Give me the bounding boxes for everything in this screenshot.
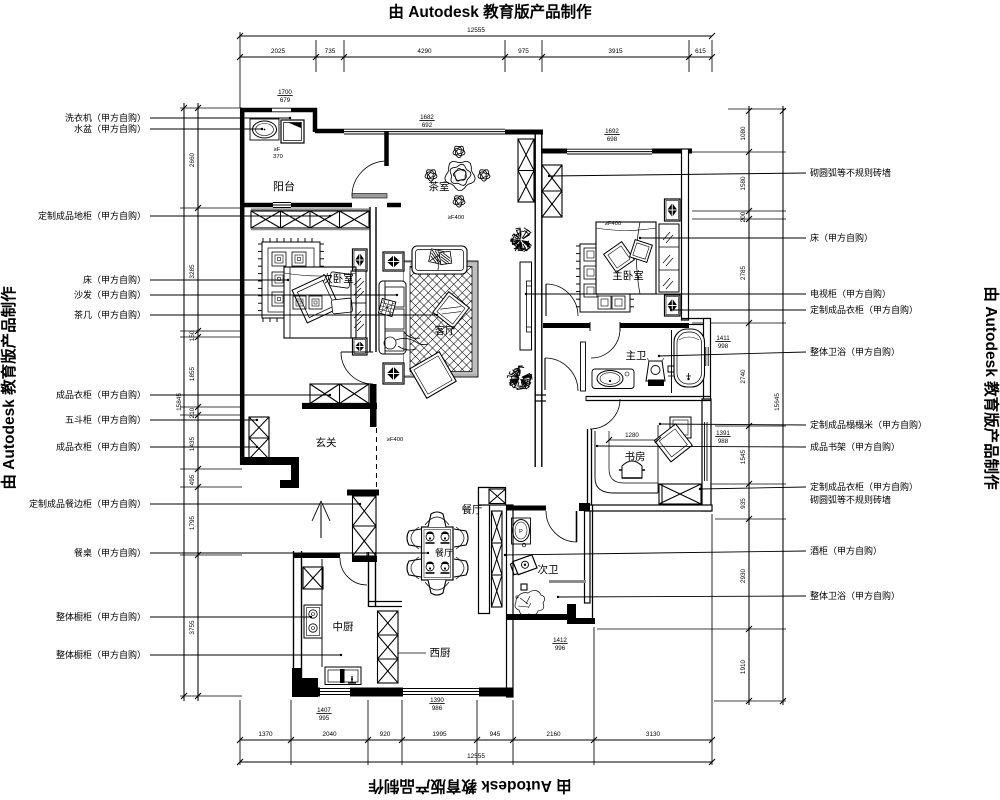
svg-text:≥F400: ≥F400 — [387, 437, 403, 443]
window: master bedroom top window 1692/698 — [567, 148, 652, 150]
wall: kitchen bottom-left notch — [292, 668, 318, 697]
wall: bedroom east wall (to hallway) — [369, 207, 371, 352]
svg-text:210: 210 — [189, 407, 196, 418]
svg-text:1411: 1411 — [716, 335, 730, 342]
wall: study west wall — [587, 429, 589, 505]
bathtub master bath — [674, 329, 705, 387]
wall: balcony top-left outer — [240, 108, 272, 113]
door: master bedroom entry door — [545, 284, 547, 316]
window: tea room top long window — [344, 128, 505, 130]
svg-text:150: 150 — [189, 330, 196, 341]
cabinet: five-drawer chest hatched — [249, 417, 269, 459]
entry direction arrow — [320, 505, 322, 538]
svg-text:茶室: 茶室 — [429, 180, 450, 193]
cabinet: master bedroom closet — [542, 165, 562, 217]
ottoman rotated square — [410, 352, 456, 398]
chair in study — [622, 461, 642, 478]
wall: second bath south step walls — [506, 604, 595, 624]
table: coffee table 茶几 — [433, 292, 469, 328]
wall: bedroom south wall / wardrobe zone — [302, 404, 377, 409]
rug inner field with diamond grid — [410, 267, 472, 372]
svg-text:1855: 1855 — [189, 366, 196, 381]
window: second bath small window lines — [550, 615, 562, 617]
wall: top edge right of opening — [291, 108, 317, 113]
cabinet: wine cabinet vertical hatched boxes — [492, 511, 503, 607]
sink: balcony wash basin oval — [250, 119, 279, 140]
decor: figure scribble in living room — [384, 332, 428, 350]
svg-text:1580: 1580 — [740, 176, 747, 191]
dining chairs left side — [407, 529, 421, 547]
wall: master bath north wall right piece — [620, 323, 689, 328]
bed headboard strip — [351, 271, 366, 338]
svg-text:砌圆弧等不规则砖墙: 砌圆弧等不规则砖墙 — [810, 494, 891, 505]
svg-text:1391: 1391 — [716, 430, 730, 437]
wall: study east wall — [702, 399, 711, 511]
wall: step out to bath east wall — [681, 318, 710, 320]
svg-text:床（甲方自购）: 床（甲方自购） — [83, 274, 146, 285]
cabinet: tea room closet strip — [518, 139, 534, 202]
svg-text:1407: 1407 — [317, 707, 331, 714]
wall: divider centre piece — [291, 203, 352, 208]
svg-text:2930: 2930 — [740, 568, 747, 583]
svg-text:成品衣柜（甲方自购）: 成品衣柜（甲方自购） — [56, 441, 146, 452]
svg-text:整体橱柜（甲方自购）: 整体橱柜（甲方自购） — [56, 649, 146, 660]
wall: pier below dining cabinet — [352, 556, 377, 562]
svg-text:998: 998 — [718, 343, 729, 350]
svg-text:≥F: ≥F — [274, 147, 281, 153]
svg-text:679: 679 — [280, 97, 291, 104]
wall: second bath east wall — [585, 511, 591, 603]
svg-text:定制成品餐边柜（甲方自购）: 定制成品餐边柜（甲方自购） — [29, 498, 146, 509]
wall: second bath north walls and door jamb — [506, 506, 546, 511]
window: study window — [704, 422, 706, 481]
rug motifs master — [584, 248, 597, 261]
svg-text:餐厅: 餐厅 — [462, 503, 483, 516]
toilet master bath — [646, 361, 665, 381]
svg-text:主卧室: 主卧室 — [612, 269, 644, 282]
wash basin second bath — [512, 518, 531, 544]
door: study door at top-left — [585, 396, 587, 401]
svg-text:定制成品地柜（甲方自购）: 定制成品地柜（甲方自购） — [38, 210, 146, 221]
svg-text:3915: 3915 — [608, 48, 623, 55]
svg-text:495: 495 — [189, 474, 196, 485]
wall: tea room stub below window — [384, 131, 389, 166]
svg-text:客厅: 客厅 — [435, 324, 456, 337]
svg-text:2785: 2785 — [740, 265, 747, 280]
window: top-left opening 1700/679 — [272, 107, 291, 109]
svg-text:电视柜（甲方自购）: 电视柜（甲方自购） — [810, 288, 891, 299]
nightstand star box top (second bedroom) — [353, 249, 368, 271]
svg-text:1995: 1995 — [432, 731, 447, 738]
svg-text:整体卫浴（甲方自购）: 整体卫浴（甲方自购） — [810, 590, 900, 601]
dining chairs top and bottom — [428, 512, 446, 527]
kitchen sink counter bottom — [325, 667, 361, 685]
wall: corridor wall x535 (tea room / dining east) — [534, 133, 536, 467]
wall: master bath south wall — [586, 396, 711, 398]
svg-text:1692: 1692 — [605, 128, 619, 135]
small drain square second bath — [521, 584, 527, 590]
svg-text:定制成品榻榻米（甲方自购）: 定制成品榻榻米（甲方自购） — [810, 419, 927, 430]
svg-text:2660: 2660 — [189, 152, 196, 167]
bottom dimension chain total 12555 — [240, 761, 712, 763]
washing machine box — [281, 120, 304, 143]
wall: divider right pier — [387, 203, 401, 208]
cabinet: wine cabinet horizontal hatched box — [489, 489, 506, 504]
svg-text:由 Autodesk 教育版产品制作: 由 Autodesk 教育版产品制作 — [388, 2, 592, 21]
toilet second bath rotated — [509, 554, 537, 576]
svg-text:12555: 12555 — [467, 753, 485, 760]
svg-text:2160: 2160 — [546, 731, 561, 738]
sofa: chaise on west side of living room — [379, 281, 406, 354]
svg-text:945: 945 — [490, 731, 501, 738]
wall: hall top wall (bedroom south) piece — [302, 403, 377, 405]
stove with two burners — [304, 605, 322, 638]
bed: second bedroom bed frame — [284, 267, 356, 338]
svg-text:935: 935 — [740, 498, 747, 509]
wall: left outer wall — [240, 108, 245, 465]
svg-text:1080: 1080 — [740, 126, 747, 141]
leader: 西厨 to cabinet — [398, 652, 426, 654]
svg-text:整体卫浴（甲方自购）: 整体卫浴（甲方自购） — [810, 346, 900, 357]
svg-text:≥F400: ≥F400 — [605, 221, 621, 227]
svg-text:1545: 1545 — [740, 449, 747, 464]
dim 1280 inside study — [609, 439, 658, 441]
svg-text:餐桌（甲方自购）: 餐桌（甲方自购） — [74, 547, 146, 558]
wall: master bedroom south wall — [543, 323, 590, 328]
rug: second bedroom greek-key rug — [262, 242, 320, 318]
svg-text:由 Autodesk 教育版产品制作: 由 Autodesk 教育版产品制作 — [368, 777, 572, 796]
plants near corridor — [511, 228, 531, 252]
svg-text:由 Autodesk 教育版产品制作: 由 Autodesk 教育版产品制作 — [0, 286, 18, 490]
svg-text:砌圆弧等不规则砖墙: 砌圆弧等不规则砖墙 — [810, 167, 891, 178]
dark cushion bundle on loveseat — [429, 249, 452, 270]
svg-text:1795: 1795 — [189, 515, 196, 530]
svg-text:成品衣柜（甲方自购）: 成品衣柜（甲方自购） — [56, 389, 146, 400]
svg-text:次卫: 次卫 — [538, 563, 559, 576]
small box next to toilet — [668, 366, 674, 372]
svg-text:整体橱柜（甲方自购）: 整体橱柜（甲方自购） — [56, 611, 146, 622]
kitchen counter line — [321, 559, 323, 667]
wall: study south wall — [586, 505, 712, 511]
wall: corner above second bath door — [579, 503, 590, 511]
svg-text:1910: 1910 — [740, 659, 747, 674]
svg-text:P: P — [519, 529, 523, 535]
svg-text:1390: 1390 — [430, 697, 444, 704]
rug motif squares — [272, 252, 286, 266]
svg-text:餐厅: 餐厅 — [435, 547, 453, 558]
bottom dimension chain segments — [240, 739, 712, 741]
bed: master bed — [596, 222, 656, 294]
wall: west kitchen hatched tall cabinet — [378, 611, 399, 683]
svg-text:定制成品衣柜（甲方自购）: 定制成品衣柜（甲方自购） — [810, 304, 918, 315]
window: master bath window — [705, 347, 707, 366]
tea table flower centre — [445, 162, 475, 191]
wall: master bedroom top, right pier — [652, 149, 692, 154]
door: master bath door — [589, 322, 591, 331]
svg-text:≥F400: ≥F400 — [448, 215, 464, 221]
svg-text:1682: 1682 — [420, 114, 434, 121]
svg-text:1435: 1435 — [189, 436, 196, 451]
shower glass grey band — [549, 580, 586, 583]
wall: balcony/bedroom divider left piece — [240, 203, 273, 208]
window: balcony-bedroom window — [273, 202, 291, 204]
svg-text:酒柜（甲方自购）: 酒柜（甲方自购） — [810, 545, 882, 556]
rug motifs overlapping bed corner — [293, 296, 306, 309]
shower scribble second bath — [515, 590, 545, 615]
svg-text:由 Autodesk 教育版产品制作: 由 Autodesk 教育版产品制作 — [982, 286, 1000, 490]
svg-text:1370: 1370 — [258, 731, 273, 738]
door: kitchen door swing — [340, 558, 367, 585]
svg-text:洗衣机（甲方自购）: 洗衣机（甲方自购） — [65, 112, 146, 123]
svg-text:1412: 1412 — [553, 637, 567, 644]
svg-text:定制成品衣柜（甲方自购）: 定制成品衣柜（甲方自购） — [810, 481, 918, 492]
svg-text:成品书架（甲方自购）: 成品书架（甲方自购） — [810, 441, 900, 452]
wall: kitchen north wall with door opening — [293, 553, 340, 558]
cabinet: study south wardrobe hatched — [659, 484, 701, 504]
cabinet: balcony floor cabinet (X-hatched) with grey bands — [251, 208, 369, 210]
svg-text:988: 988 — [718, 438, 729, 445]
svg-text:200: 200 — [740, 211, 747, 222]
right dimension chain segments — [748, 106, 750, 705]
svg-text:692: 692 — [422, 122, 433, 129]
svg-text:阳台: 阳台 — [273, 179, 295, 193]
svg-text:4290: 4290 — [417, 48, 432, 55]
nightstand star box bottom (second bedroom) — [353, 338, 368, 355]
divider line before bathtub — [671, 330, 673, 393]
sofa: loveseat at top of living room — [412, 246, 467, 274]
wall: hallway southwest L-step — [240, 457, 299, 488]
wall: master bedroom top, left pier — [541, 149, 567, 154]
top dimension chain segments — [240, 56, 712, 58]
dining table — [422, 527, 454, 580]
svg-text:3755: 3755 — [189, 620, 196, 635]
svg-text:玄关: 玄关 — [316, 436, 337, 449]
wall: bedroom east wall lower pillar — [370, 384, 377, 427]
left dimension chain segments — [197, 103, 199, 701]
svg-text:3285: 3285 — [189, 264, 196, 279]
left dimension chain total 15645 — [183, 103, 185, 701]
right dimension chain total 15645 — [782, 106, 784, 705]
svg-text:995: 995 — [319, 715, 330, 722]
door: bedroom door swing — [341, 351, 373, 353]
svg-text:12555: 12555 — [467, 27, 485, 34]
headboard bench master bed — [659, 224, 679, 292]
wall: bath east wall with window — [704, 319, 711, 400]
svg-text:茶几（甲方自购）: 茶几（甲方自购） — [74, 309, 146, 320]
svg-text:1700: 1700 — [278, 89, 292, 96]
wall: kitchen/dining divider wall — [368, 552, 370, 607]
nightstand star box bottom (master) — [665, 295, 681, 316]
wall: block between windows x505-542 — [505, 130, 543, 135]
svg-text:1280: 1280 — [625, 432, 639, 439]
svg-text:15645: 15645 — [774, 393, 781, 411]
svg-text:水盆（甲方自购）: 水盆（甲方自购） — [74, 123, 146, 134]
svg-text:975: 975 — [518, 48, 529, 55]
svg-text:次卧室: 次卧室 — [322, 272, 354, 285]
wall: pier above dining cabinet — [347, 490, 379, 496]
speaker star box top-left of rug — [383, 252, 404, 271]
TV cabinet against corridor wall — [520, 262, 532, 350]
cabinet: bedroom south wardrobe hatched — [310, 384, 369, 404]
wall: kitchen west wall — [293, 551, 295, 697]
svg-text:中厨: 中厨 — [333, 620, 354, 633]
rug: master bedroom greek key rug with fringe — [580, 244, 630, 312]
top dimension chain total 12555 — [240, 35, 712, 37]
svg-text:西厨: 西厨 — [430, 647, 451, 659]
svg-text:986: 986 — [432, 705, 443, 712]
svg-text:2040: 2040 — [322, 731, 337, 738]
wall: right outer wall of master bedroom — [682, 149, 689, 320]
tea room small flowers — [453, 146, 465, 157]
svg-text:主卫: 主卫 — [626, 350, 647, 362]
tatami table upright square — [670, 417, 691, 438]
door: balcony door slab and swing — [352, 194, 387, 199]
wall: hallway west wall upper — [242, 457, 244, 465]
speaker star box bottom-left of rug — [383, 363, 404, 384]
cabinet: kitchen corner hatched box — [303, 567, 323, 589]
wall: kitchen south wall with windows — [292, 688, 320, 697]
cabinet: dining pillar cabinet — [353, 496, 377, 556]
desk curve in study — [595, 431, 658, 493]
svg-text:615: 615 — [695, 48, 706, 55]
svg-text:920: 920 — [380, 731, 391, 738]
svg-text:370: 370 — [273, 154, 283, 160]
dining chairs right side — [454, 529, 468, 547]
tatami cushion rotated square — [654, 424, 692, 462]
dashed: hall ceiling break line — [376, 428, 378, 491]
rug: living room with grey stipple border — [404, 261, 478, 377]
bed quilt rotated square — [292, 275, 340, 323]
svg-text:698: 698 — [607, 136, 618, 143]
bed pillows second bedroom — [329, 272, 351, 289]
svg-text:996: 996 — [555, 645, 566, 652]
vanity counter master bath — [592, 369, 634, 389]
wall: second bath east outer step — [592, 505, 594, 624]
svg-text:2740: 2740 — [740, 369, 747, 384]
nightstand star box top (master) — [665, 199, 681, 221]
decor: dark pillow on chaise — [378, 298, 395, 316]
svg-text:2025: 2025 — [271, 48, 286, 55]
svg-text:五斗柜（甲方自购）: 五斗柜（甲方自购） — [65, 414, 146, 425]
svg-text:735: 735 — [325, 48, 336, 55]
wall: dining east wall x478-490 — [479, 488, 490, 614]
door: corridor door to bath/study area — [544, 358, 546, 390]
wall: second bath west wall — [507, 505, 514, 697]
place settings on dining table — [426, 533, 434, 541]
corridor shaft thin rect — [581, 342, 586, 391]
svg-text:床（甲方自购）: 床（甲方自购） — [810, 232, 873, 243]
pillow rotated squares master bed — [604, 242, 635, 273]
wall: corridor step at dining — [535, 394, 546, 396]
svg-text:沙发（甲方自购）: 沙发（甲方自购） — [74, 289, 146, 300]
wall: step down at x315 — [313, 108, 318, 132]
svg-text:3130: 3130 — [646, 731, 661, 738]
wall: small horizontal at y131 — [315, 129, 344, 134]
wall: dining east wall top block — [479, 488, 506, 506]
